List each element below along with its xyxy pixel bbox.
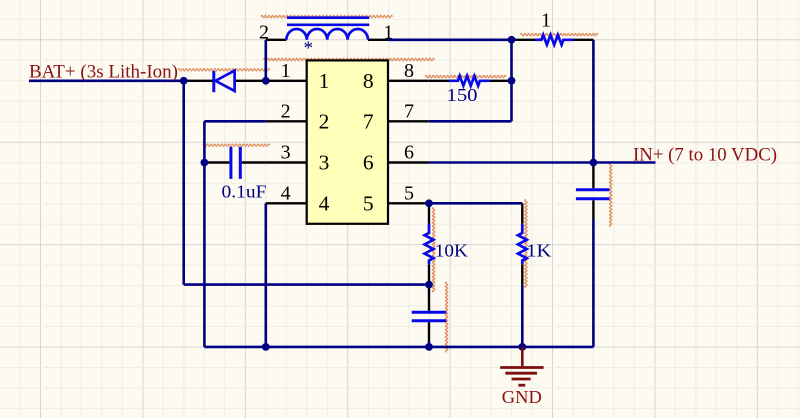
mask squiggle beside resistor 10K bbox=[432, 208, 434, 293]
wire right vertical from resistor 1 down to IN+ node bbox=[592, 40, 595, 163]
IC pin 1 stub bbox=[266, 80, 307, 82]
svg-text:7: 7 bbox=[404, 100, 414, 122]
inductor core bar bottom bbox=[287, 23, 369, 26]
svg-text:2: 2 bbox=[319, 109, 330, 133]
svg-text:7: 7 bbox=[363, 109, 374, 133]
svg-text:2: 2 bbox=[259, 21, 269, 43]
wire vertical at x=511 from top node to pin7 wire bbox=[510, 40, 513, 122]
bottom capacitor bottom plate bbox=[412, 319, 447, 322]
mask squiggle above resistor 1 bbox=[521, 33, 598, 35]
wire pin4 vertical down to rail bbox=[264, 203, 267, 347]
svg-text:4: 4 bbox=[281, 182, 291, 204]
svg-text:1: 1 bbox=[541, 10, 551, 32]
IC pin 5 stub bbox=[388, 202, 429, 204]
mask squiggle above diode bbox=[178, 69, 270, 71]
resistor 150 right pin bbox=[490, 80, 512, 82]
junction node rail pin4 bbox=[262, 343, 270, 351]
capacitor 0.1uF right plate bbox=[239, 147, 242, 179]
bottom capacitor top lead bbox=[428, 285, 430, 311]
mask squiggle beside bottom capacitor bbox=[445, 282, 447, 352]
wire inductor pin1 to node at top bbox=[388, 38, 511, 41]
svg-text:6: 6 bbox=[404, 142, 414, 164]
diode right lead bbox=[235, 80, 266, 82]
ground symbol bar 4 bbox=[518, 384, 525, 387]
input capacitor top plate bbox=[576, 188, 610, 191]
junction node diode/pin1/inductor bbox=[262, 77, 270, 85]
wire 1K bottom to rail bbox=[521, 285, 524, 347]
input capacitor top lead bbox=[592, 166, 594, 189]
svg-text:1: 1 bbox=[281, 60, 291, 82]
IC pin 8 stub bbox=[388, 80, 429, 82]
mask squiggle above IC bbox=[264, 58, 435, 60]
ground symbol bar 1 bbox=[500, 366, 543, 369]
svg-text:3: 3 bbox=[281, 142, 291, 164]
junction node IN+ bbox=[590, 159, 598, 167]
capacitor 0.1uF left lead bbox=[204, 161, 229, 163]
svg-text:6: 6 bbox=[363, 151, 374, 175]
IC pin 4 stub bbox=[266, 202, 307, 204]
resistor 1 right pin bbox=[574, 39, 594, 41]
junction node BAT+/diode bbox=[180, 77, 188, 85]
diode triangle bbox=[215, 71, 234, 91]
ground symbol stem bbox=[521, 347, 524, 366]
inductor core bar top bbox=[287, 16, 369, 19]
bottom capacitor bottom lead bbox=[428, 322, 430, 341]
junction node 10K bottom/cap bbox=[425, 281, 433, 289]
inductor pin 1 stub bbox=[368, 39, 388, 41]
junction node pin5/10K bbox=[425, 199, 433, 207]
input capacitor bottom plate bbox=[576, 197, 610, 200]
resistor 1K zigzag body bbox=[518, 224, 527, 264]
resistor 10K zigzag body bbox=[425, 224, 434, 264]
diode left lead bbox=[184, 80, 214, 82]
capacitor 0.1uF left plate bbox=[229, 147, 232, 179]
wire middle horizontal to 10K bottom bbox=[184, 283, 429, 286]
wire bottom rail bbox=[204, 346, 593, 349]
wire pin5 node to 1K top bbox=[429, 202, 522, 205]
ground symbol bar 2 bbox=[505, 372, 537, 375]
wire pin7 to vertical bbox=[429, 120, 512, 123]
svg-text:4: 4 bbox=[319, 191, 330, 215]
resistor 150 zigzag body bbox=[449, 76, 490, 86]
wire pin2 horizontal bbox=[204, 120, 265, 123]
resistor 10K top pin bbox=[428, 203, 430, 224]
input capacitor bottom lead bbox=[592, 200, 594, 219]
resistor 1K top pin bbox=[521, 203, 523, 224]
wire IN+ stub to label bbox=[593, 161, 655, 164]
wire inductor pin2 down to diode node bbox=[264, 40, 267, 81]
resistor 150 left pin bbox=[429, 80, 449, 82]
junction node top resistor 1 bbox=[508, 36, 516, 44]
svg-text:2: 2 bbox=[281, 100, 291, 122]
mask squiggle beside resistor 1K bbox=[525, 200, 527, 288]
bottom capacitor top plate bbox=[412, 311, 447, 314]
svg-text:0.1uF: 0.1uF bbox=[222, 181, 267, 201]
junction node 150/vertical bbox=[508, 77, 516, 85]
diode cathode bar bbox=[212, 71, 215, 92]
inductor winding arcs bbox=[286, 29, 368, 40]
svg-text:BAT+ (3s Lith-Ion): BAT+ (3s Lith-Ion) bbox=[29, 62, 178, 83]
svg-text:*: * bbox=[303, 38, 313, 59]
resistor 1 zigzag body bbox=[535, 35, 574, 45]
mask squiggle above inductor bbox=[261, 15, 392, 17]
svg-text:3: 3 bbox=[319, 151, 330, 175]
mask squiggle beside input capacitor bbox=[610, 164, 612, 227]
svg-text:5: 5 bbox=[363, 191, 374, 215]
IC pin 6 stub bbox=[388, 161, 429, 163]
svg-text:8: 8 bbox=[363, 69, 374, 93]
svg-text:1: 1 bbox=[319, 69, 330, 93]
svg-text:150: 150 bbox=[447, 85, 478, 105]
svg-text:1K: 1K bbox=[526, 241, 551, 261]
op-amp IC body (yellow rectangle) bbox=[307, 60, 388, 223]
resistor 1 left pin bbox=[512, 39, 536, 41]
svg-text:GND: GND bbox=[502, 387, 542, 407]
svg-text:5: 5 bbox=[404, 182, 414, 204]
capacitor 0.1uF right lead bbox=[242, 161, 266, 163]
wire BAT+ horizontal bbox=[29, 80, 184, 83]
resistor 1K bottom pin bbox=[521, 264, 523, 284]
junction node rail 1K/GND bbox=[518, 343, 526, 351]
IC pin 3 stub bbox=[266, 161, 307, 163]
junction node rail cap bbox=[425, 343, 433, 351]
wire pin6 to IN+ node bbox=[429, 161, 594, 164]
svg-text:10K: 10K bbox=[435, 241, 468, 261]
wire right vertical below cap to bottom rail bbox=[592, 220, 595, 347]
wire BAT+ vertical left bbox=[182, 81, 185, 285]
IC pin 2 stub bbox=[266, 120, 307, 122]
wire vertical x=204 pin2/cap down to bottom rail bbox=[203, 121, 206, 347]
svg-text:1: 1 bbox=[383, 21, 393, 43]
inductor pin 2 stub bbox=[266, 39, 287, 41]
resistor 10K bottom pin bbox=[428, 264, 430, 284]
svg-text:8: 8 bbox=[404, 60, 414, 82]
junction node 0.1uF bbox=[201, 159, 209, 167]
svg-text:IN+ (7 to 10 VDC): IN+ (7 to 10 VDC) bbox=[633, 144, 777, 165]
IC pin 7 stub bbox=[388, 120, 429, 122]
ground symbol bar 3 bbox=[512, 378, 531, 381]
mask squiggle above resistor 150 bbox=[425, 75, 506, 77]
mask squiggle above capacitor 0.1uF bbox=[203, 144, 270, 146]
wire bottom cap to rail stub bbox=[428, 341, 431, 347]
